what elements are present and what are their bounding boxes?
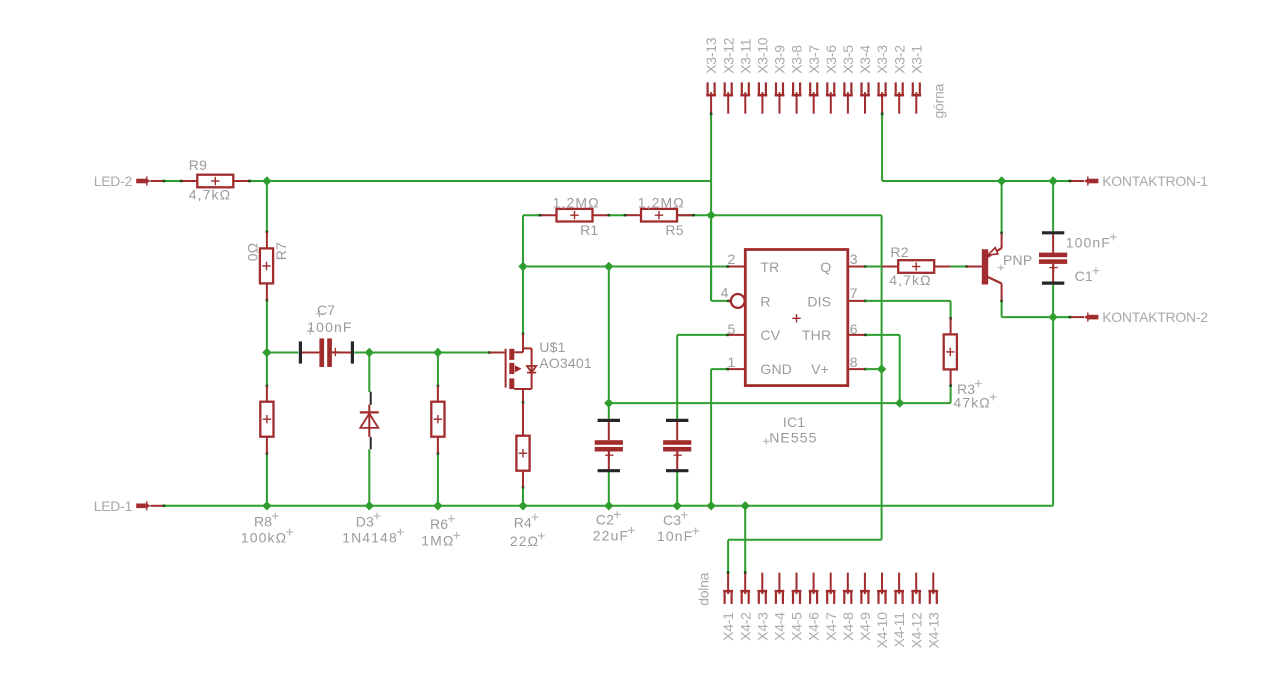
junction R4 bottom rail [518,501,527,510]
connector pin X4-6 [806,573,822,641]
junction R6 top [433,348,442,357]
wire GND pin stub [726,368,745,371]
wire V+ vertical down to X4-1 [727,215,882,574]
connector pin X4-12 [908,573,924,649]
svg-text:22uF: 22uF [593,528,629,544]
wire R6 top lead [437,353,440,388]
svg-text:8: 8 [850,354,858,370]
junction R5 column [706,211,715,220]
svg-text:R8: R8 [254,513,272,529]
wire R1-R5 middle [609,214,625,216]
connector pin X3-11 [737,38,753,113]
svg-text:X3-2: X3-2 [891,45,907,74]
svg-text:X4-5: X4-5 [789,612,805,641]
svg-text:GND: GND [760,361,792,377]
svg-text:2: 2 [728,251,736,267]
resistor R6 [421,386,460,549]
wire THR pin stub [848,334,867,337]
svg-text:X3-7: X3-7 [806,45,822,74]
svg-text:1MΩ: 1MΩ [421,533,454,549]
connector pin X3-4 [857,45,873,114]
svg-text:X4-13: X4-13 [925,612,941,649]
svg-text:THR: THR [802,327,831,343]
wire X3-3 to right rail [881,113,1071,183]
svg-text:R5: R5 [665,222,683,238]
wire R7 bottom to C7 row [266,299,269,353]
wire Q pin stub [848,265,867,268]
resistor R3 [944,318,997,410]
wire C7 left lead [267,352,298,354]
svg-text:CV: CV [760,327,780,343]
svg-text:X3-9: X3-9 [772,45,788,74]
connector pin X3-6 [823,45,839,114]
svg-text:IC1: IC1 [783,414,805,430]
svg-text:X3-3: X3-3 [874,45,890,74]
svg-text:X3-5: X3-5 [840,45,856,74]
wire CV pin [677,335,728,419]
wire R8 top [266,353,269,388]
wire X3-13 to rail/R junction [710,113,713,301]
svg-text:22Ω: 22Ω [510,533,539,549]
svg-text:C2: C2 [596,512,614,528]
wire C1 top lead [1052,181,1054,231]
svg-text:X3-8: X3-8 [789,45,805,74]
capacitor C1 [1039,233,1117,284]
wire PNP collector down to KONTAKTRON-2 [1000,300,1071,319]
svg-text:X4-9: X4-9 [857,612,873,641]
connector pin X3-13 [703,37,719,113]
svg-text:X3-10: X3-10 [755,37,771,74]
resistor R4 [510,403,545,549]
wire R4 bottom [522,486,525,506]
connector pin X4-8 [840,573,856,641]
capacitor C2 [593,420,635,543]
connector pin X4-7 [823,573,839,641]
wire Q to R2 [866,266,882,268]
connector pin X4-9 [857,573,873,641]
connector pin X4-2 [737,573,753,641]
wire R7 top [266,181,269,233]
svg-text:5: 5 [728,321,736,337]
wire D3 bottom lead [368,449,370,506]
connector pin X4-3 [754,573,770,641]
svg-text:0Ω: 0Ω [244,243,260,262]
svg-text:Q: Q [820,259,831,275]
svg-text:R: R [760,293,770,309]
junction C2 bottom rail [604,501,613,510]
wire R6 bottom [437,452,440,506]
resistor R1 [539,194,610,238]
svg-text:górna: górna [931,83,947,118]
wire R junction down to pin 4 [711,215,731,302]
svg-text:6: 6 [850,321,858,337]
wire C1 bottom to ground rail [1052,285,1054,506]
wire mosfet drain to R4 [522,401,525,404]
resistor R9 [180,157,251,203]
wire C3 bottom lead [676,472,678,506]
svg-text:R1: R1 [580,222,598,238]
connector pin X4-10 [874,573,890,649]
junction TR / C2 column [604,262,613,271]
svg-text:X4-11: X4-11 [891,612,907,648]
wire R1 left corner [523,215,540,266]
svg-text:LED-1: LED-1 [94,498,133,514]
svg-text:1: 1 [728,354,736,370]
junction V+ pin 8 [877,364,886,373]
connector pin X3-12 [720,37,736,113]
svg-text:7: 7 [850,285,858,301]
svg-text:LED-2: LED-2 [94,173,133,189]
svg-text:DIS: DIS [807,293,831,309]
svg-text:R6: R6 [430,516,448,532]
wire C2 column vertical [608,267,610,404]
wire C7 right to D3 junction [354,352,369,354]
connector pin X4-1 [720,573,736,641]
wire PNP emitter up to rail [1000,181,1003,234]
resistor R7 [244,232,289,300]
wire X4-2 drop [744,506,747,574]
svg-text:X3-11: X3-11 [737,38,753,74]
wire mosfet source up [522,267,525,336]
wire D3 junction to R6 junction [369,352,438,354]
junction GND bottom rail [706,501,715,510]
wire LED-2 to R9 [163,180,182,183]
svg-text:4,7kΩ: 4,7kΩ [889,272,931,288]
wire C2 top lead [608,403,610,419]
svg-text:NE555: NE555 [769,430,817,446]
junction TR / mosfet column [518,262,527,271]
net pin LED-1 [94,498,164,514]
label dolna [696,572,712,605]
ic IC1 NE555 [721,250,858,446]
wire GND pin [711,369,728,506]
wire C2 bottom lead [608,472,610,506]
svg-text:R7: R7 [273,242,289,260]
svg-text:3: 3 [850,251,858,267]
svg-text:X4-1: X4-1 [720,612,736,641]
connector pin X3-10 [755,37,771,113]
svg-text:C3: C3 [663,512,681,528]
net pin LED-2 [94,173,164,189]
svg-text:C1: C1 [1075,268,1093,284]
svg-text:TR: TR [760,259,779,275]
wire V+ pin stub [848,368,867,371]
svg-text:1,2MΩ: 1,2MΩ [553,194,600,210]
svg-text:X3-13: X3-13 [703,37,719,74]
junction C7 left [262,348,271,357]
junction R6 bottom rail [433,501,442,510]
connector pin X4-4 [772,573,788,641]
mosfet U$1 AO3401 [489,334,591,402]
svg-text:X4-12: X4-12 [908,612,924,649]
capacitor C3 [657,420,699,544]
wire R6 junction to mosfet gate [438,351,491,354]
wire TR horizontal [523,266,728,268]
svg-text:4: 4 [721,285,729,301]
svg-text:X4-2: X4-2 [737,612,753,641]
junction R8 bottom rail [262,501,271,510]
svg-text:100kΩ: 100kΩ [241,529,287,545]
wire THR pin to drop [866,335,900,403]
wire TR pin stub [726,265,745,268]
label gorna [931,83,947,118]
svg-text:X3-4: X3-4 [857,45,873,74]
wire R2 to PNP base [951,265,969,268]
svg-text:PNP: PNP [1003,252,1032,268]
wire DIS pin stub [848,300,867,303]
wire V+ pin to junction [866,368,882,370]
svg-text:1N4148: 1N4148 [342,529,398,545]
resistor R8 [241,386,293,545]
junction D3 bottom rail [365,501,374,510]
svg-text:X4-4: X4-4 [772,612,788,641]
connector pin X3-1 [908,45,924,114]
svg-text:X4-8: X4-8 [840,612,856,641]
connector pin X4-5 [789,573,805,641]
resistor R5 [624,194,695,238]
svg-text:X4-7: X4-7 [823,612,839,641]
junction THR drop [895,398,904,407]
connector pin X3-3 [874,45,890,114]
svg-text:U$1: U$1 [539,339,565,355]
capacitor C7 [300,302,352,367]
wire R9 to junction [250,180,267,182]
svg-text:X4-10: X4-10 [874,612,890,649]
connector pin X3-2 [891,45,907,114]
wire CV pin stub [726,334,745,337]
svg-text:4,7kΩ: 4,7kΩ [189,186,231,202]
resistor R2 [882,244,951,288]
wire D3 top lead [368,353,370,393]
svg-text:X4-6: X4-6 [806,612,822,641]
svg-text:R4: R4 [514,514,532,530]
wire R8 bottom [266,452,269,506]
junction PNP emitter / rail [997,176,1006,185]
junction C1 / KONTAKTRON-2 [1048,312,1057,321]
svg-text:100nF: 100nF [1066,234,1111,250]
svg-text:10nF: 10nF [657,528,693,544]
wire R5 junction to V+ vertical [711,214,882,216]
wire top-left rail LED-2/R9 to X3-13 column [267,180,711,182]
svg-text:KONTAKTRON-1: KONTAKTRON-1 [1102,173,1208,189]
transistor PNP [967,234,1033,300]
connector pin X3-7 [806,45,822,114]
net pin KONTAKTRON-1 [1070,173,1208,189]
svg-text:V+: V+ [811,361,829,377]
svg-text:100nF: 100nF [307,319,352,335]
svg-text:dolna: dolna [696,572,712,605]
svg-text:X4-3: X4-3 [754,612,770,641]
svg-text:1,2MΩ: 1,2MΩ [638,194,685,210]
junction C3 bottom rail [673,501,682,510]
wire bottom rail [163,505,1054,508]
wire R5 right to junction [677,214,711,216]
svg-text:X3-12: X3-12 [720,37,736,74]
diode D3 1N4148 [342,392,404,546]
wire THR horizontal line [609,386,951,403]
connector pin X4-13 [925,573,941,649]
svg-text:X3-1: X3-1 [908,45,924,74]
svg-text:AO3401: AO3401 [539,355,592,371]
wire DIS to R3 [866,301,952,320]
svg-text:D3: D3 [356,513,374,529]
junction C1 top / rail [1048,176,1057,185]
svg-text:R2: R2 [890,244,908,260]
junction R9 rail [262,176,271,185]
svg-text:KONTAKTRON-2: KONTAKTRON-2 [1102,309,1208,325]
junction C2 / THR line [604,398,613,407]
net pin KONTAKTRON-2 [1070,309,1208,325]
junction D3 top [365,348,374,357]
svg-text:X3-6: X3-6 [823,45,839,74]
connector pin X3-8 [789,45,805,114]
connector pin X4-11 [891,573,907,648]
connector pin X3-5 [840,45,856,114]
svg-text:R9: R9 [189,157,207,173]
junction X4-2 bottom rail [741,501,750,510]
connector pin X3-9 [772,45,788,114]
svg-text:47kΩ: 47kΩ [953,394,990,410]
